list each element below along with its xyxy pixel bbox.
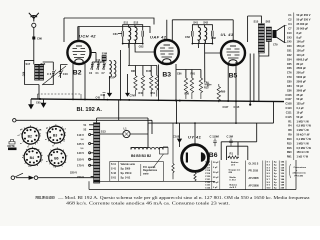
svg-text:B2: B2	[28, 135, 32, 139]
svg-text:125 V: 125 V	[77, 142, 84, 146]
svg-text:144: 144	[281, 178, 285, 181]
svg-text:C107: C107	[223, 106, 229, 109]
wires IF1	[123, 25, 143, 48]
svg-text:R9: R9	[288, 133, 292, 137]
loudspeaker	[273, 26, 287, 47]
svg-text:C1: C1	[288, 13, 292, 17]
svg-text:2500 pF: 2500 pF	[297, 80, 307, 84]
svg-text:128: 128	[281, 167, 285, 169]
svg-text:C118: C118	[205, 170, 211, 172]
svg-text:C 6: C 6	[47, 72, 52, 76]
svg-text:f f: f f	[52, 146, 54, 148]
svg-text:f f: f f	[53, 167, 55, 169]
svg-text:a7: a7	[18, 135, 21, 137]
svg-text:Sp: Sp	[274, 162, 277, 164]
svg-text:C65: C65	[287, 62, 292, 66]
svg-text:de B Z: de B Z	[230, 187, 237, 189]
svg-text:C7: C7	[102, 72, 106, 75]
socket B4	[22, 148, 44, 168]
svg-text:C60: C60	[287, 44, 292, 48]
padder C43 arrow	[101, 76, 112, 97]
svg-text:PHILIPS RADIO: PHILIPS RADIO	[36, 196, 56, 201]
svg-text:Valvole serie: Valvole serie	[121, 163, 136, 166]
rectifier tube B6 (UY41)	[182, 123, 218, 172]
svg-text:468 kc/s. Corrente totale anod: 468 kc/s. Corrente totale anodica 46 mA …	[66, 201, 230, 206]
svg-text:g1: g1	[40, 153, 43, 155]
svg-text:UAF 42: UAF 42	[150, 34, 167, 39]
svg-text:S 61: S 61	[111, 177, 117, 180]
bottom-centre table designators	[205, 162, 211, 190]
svg-text:50 kΩ ¼ W: 50 kΩ ¼ W	[297, 133, 311, 137]
svg-text:0,1 MΩ ¼ W: 0,1 MΩ ¼ W	[297, 137, 312, 141]
svg-text:R 88: R 88	[146, 70, 152, 73]
svg-text:C115: C115	[205, 162, 211, 164]
svg-text:Sp. 2000: Sp. 2000	[121, 168, 131, 171]
svg-text:C4: C4	[288, 22, 292, 26]
svg-text:m: m	[46, 161, 48, 163]
svg-text:C117: C117	[205, 167, 211, 169]
svg-text:C106: C106	[285, 93, 292, 97]
svg-text:C61: C61	[113, 32, 118, 36]
svg-text:C43: C43	[287, 35, 292, 39]
svg-text:Sp: Sp	[274, 164, 277, 166]
svg-text:B3: B3	[53, 134, 57, 138]
junction dots on bus	[72, 98, 255, 102]
svg-text:50 µF 350 V: 50 µF 350 V	[297, 18, 311, 22]
svg-text:C61: C61	[287, 49, 292, 53]
wire B2 cathode down	[73, 63, 85, 99]
svg-text:C66: C66	[37, 37, 42, 41]
output transformer secondary S16	[266, 20, 272, 42]
variable capacitor C10	[59, 65, 69, 79]
trimmer C2	[89, 62, 94, 75]
svg-text:2 µF: 2 µF	[213, 167, 218, 169]
svg-text:150 Ω 1 W: 150 Ω 1 W	[297, 150, 310, 154]
vertical feeds to 123 line	[177, 101, 274, 124]
svg-text:C63: C63	[185, 35, 190, 39]
wire transformer top	[97, 118, 148, 131]
svg-text:S 6: S 6	[267, 176, 271, 178]
svg-text:C62: C62	[139, 45, 144, 49]
ground bus	[31, 99, 284, 102]
ground arrow below bus	[41, 99, 45, 107]
svg-text:S 9: S 9	[267, 185, 271, 187]
capacitor C66 (antenna series)	[32, 37, 42, 41]
svg-text:C86: C86	[287, 88, 292, 92]
svg-text:144: 144	[281, 163, 285, 166]
svg-text:125 pF: 125 pF	[297, 102, 306, 106]
svg-text:C79: C79	[287, 75, 292, 79]
svg-text:Sp: Sp	[274, 179, 277, 181]
svg-text:C7M: C7M	[130, 95, 135, 98]
svg-text:R38: R38	[131, 70, 136, 73]
svg-text:5,6: 5,6	[81, 148, 85, 150]
wire B5 cathode legs	[228, 62, 236, 101]
svg-text:148: 148	[281, 184, 285, 187]
svg-text:B4: B4	[30, 156, 34, 160]
svg-text:150 pF: 150 pF	[297, 44, 306, 48]
junction dot below bus	[249, 104, 251, 106]
tap 140V	[77, 151, 94, 155]
svg-text:C76: C76	[287, 71, 292, 75]
right note block	[293, 166, 307, 177]
svg-text:1 MΩ ¼ W: 1 MΩ ¼ W	[297, 128, 310, 132]
svg-text:AP 23005: AP 23005	[249, 177, 260, 180]
svg-text:150 pF: 150 pF	[297, 49, 306, 53]
variable capacitor C6	[47, 70, 56, 77]
svg-text:C111: C111	[286, 110, 292, 114]
mains switch and plug	[11, 170, 93, 179]
svg-text:C1: C1	[96, 72, 100, 75]
trimmer C63	[185, 31, 193, 39]
trimmer C7	[102, 61, 107, 75]
svg-text:C107: C107	[285, 97, 292, 101]
resistor R91	[190, 73, 195, 99]
transformer tap S1	[84, 124, 94, 127]
tap 150V	[77, 158, 94, 162]
tube B5 (UL41)	[221, 32, 246, 80]
svg-text:g2: g2	[64, 135, 67, 137]
svg-text:Costruzione: Costruzione	[294, 166, 307, 169]
svg-text:C66: C66	[23, 71, 26, 76]
svg-text:a 2: a 2	[63, 129, 67, 131]
bottom-centre table parts	[229, 162, 241, 189]
svg-text:150 V: 150 V	[77, 158, 84, 162]
resistor S3M	[96, 52, 108, 62]
wire grid B2 left	[61, 18, 80, 65]
resistor R38	[131, 70, 137, 96]
svg-text:di S: di S	[231, 165, 236, 167]
svg-text:B6 B5 B3 B2: B6 B5 B3 B2	[131, 154, 151, 158]
svg-text:1 MΩ ¼ W: 1 MΩ ¼ W	[297, 119, 310, 123]
svg-text:C121: C121	[205, 179, 211, 181]
svg-text:C79: C79	[273, 44, 278, 47]
bottom rail	[89, 160, 296, 190]
wire B3 cathode down	[176, 64, 201, 101]
svg-text:C82: C82	[211, 36, 216, 40]
svg-text:S 8: S 8	[267, 182, 271, 184]
svg-text:S42: S42	[203, 21, 208, 25]
svg-text:S 4: S 4	[267, 169, 271, 172]
svg-text:110 pF: 110 pF	[297, 53, 305, 57]
resistor R1	[228, 152, 239, 159]
svg-text:C84: C84	[287, 84, 292, 88]
svg-text:OL 201 S: OL 201 S	[249, 164, 259, 166]
tube B3 (UAF42)	[150, 34, 179, 78]
wire below bus to transformer	[118, 100, 120, 121]
hum pot box	[153, 148, 168, 169]
svg-text:50 µF: 50 µF	[213, 172, 219, 174]
component value list	[285, 13, 311, 158]
pilot lamp L1	[100, 127, 148, 148]
padder C76 arrow	[126, 74, 135, 98]
svg-text:3,4: 3,4	[81, 138, 85, 141]
gang arrow (tuning)	[42, 66, 66, 85]
socket B3	[45, 126, 67, 147]
svg-text:R90: R90	[287, 150, 292, 154]
svg-text:184: 184	[281, 175, 285, 178]
svg-text:Sp: Sp	[274, 182, 277, 184]
svg-text:9000,5 µF: 9000,5 µF	[297, 57, 309, 61]
svg-text:g4: g4	[20, 128, 23, 131]
oscillator coil S5	[109, 61, 116, 80]
svg-text:R1: R1	[288, 119, 292, 123]
svg-text:1 kΩ ¼ W: 1 kΩ ¼ W	[297, 155, 309, 159]
resistor R88	[146, 70, 153, 97]
svg-text:0,5 MΩ ¼ W: 0,5 MΩ ¼ W	[297, 146, 312, 150]
socket B2	[18, 127, 42, 148]
svg-text:0,1 µF: 0,1 µF	[297, 106, 305, 110]
svg-text:B2: B2	[73, 70, 82, 77]
svg-text:R15: R15	[287, 141, 292, 145]
svg-text:Sp. 14 Ω: Sp. 14 Ω	[121, 177, 131, 180]
svg-text:25 µF: 25 µF	[213, 177, 219, 179]
svg-text:R91: R91	[191, 73, 196, 76]
top outer box	[64, 18, 154, 25]
svg-text:S12: S12	[134, 21, 139, 25]
caption line 1	[36, 196, 311, 207]
antenna	[29, 13, 39, 28]
svg-text:R40: R40	[139, 92, 144, 95]
svg-text:C43: C43	[101, 94, 106, 97]
svg-text:C 2M: C 2M	[227, 135, 234, 139]
svg-text:S17: S17	[26, 62, 31, 66]
svg-text:C45: C45	[287, 40, 292, 44]
wire antenna ground leg	[25, 60, 39, 99]
terminal circle left	[13, 119, 16, 122]
socket pin ticks	[21, 125, 41, 145]
tap 110V	[77, 133, 94, 137]
capacitor C108	[173, 123, 181, 147]
bottom-left table	[111, 163, 158, 180]
svg-text:C 110M: C 110M	[210, 135, 220, 139]
svg-text:fr. B Z: fr. B Z	[230, 180, 237, 182]
capacitor C21	[227, 135, 234, 147]
svg-text:e: e	[296, 170, 298, 172]
svg-text:250 pF: 250 pF	[297, 71, 306, 75]
svg-text:140 V: 140 V	[77, 151, 84, 155]
svg-text:B3: B3	[162, 72, 171, 79]
svg-text:Sp. 150 Ω: Sp. 150 Ω	[121, 172, 132, 175]
svg-text:C115: C115	[234, 106, 240, 109]
svg-text:1 MΩ ¼ W: 1 MΩ ¼ W	[297, 141, 310, 145]
svg-text:50 µF: 50 µF	[213, 162, 219, 164]
svg-text:50 µF 350 V: 50 µF 350 V	[297, 13, 311, 17]
svg-text:129: 129	[281, 173, 285, 175]
svg-text:S 11: S 11	[111, 163, 116, 166]
svg-text:8 µF: 8 µF	[297, 35, 303, 39]
wire rail under IF1	[128, 44, 157, 76]
box B5/output	[248, 16, 262, 42]
svg-text:R1: R1	[230, 152, 234, 156]
wire B2 anode to IF1	[91, 52, 96, 54]
svg-text:S11: S11	[124, 21, 129, 25]
transformer tap S2	[84, 129, 94, 132]
svg-text:50 µF: 50 µF	[213, 182, 219, 184]
svg-text:148: 148	[281, 181, 285, 184]
resistor C86 leg	[177, 73, 188, 99]
svg-text:R51: R51	[151, 92, 156, 95]
antenna coil S16	[39, 62, 45, 80]
wires around R1	[221, 123, 257, 160]
svg-text:C115: C115	[286, 115, 293, 119]
long vertical wires to bus	[250, 53, 259, 101]
svg-text:S 1: S 1	[267, 162, 271, 164]
power transformer S13	[94, 123, 107, 184]
svg-text:C62: C62	[287, 53, 292, 57]
svg-text:C123: C123	[205, 185, 211, 187]
svg-text:2 µF: 2 µF	[213, 187, 218, 189]
tap 220V	[77, 175, 94, 179]
wire secondary legs	[43, 62, 54, 85]
IF transformer 1 S11/S12	[124, 21, 139, 44]
svg-text:C108: C108	[285, 102, 292, 106]
svg-text:C10: C10	[287, 31, 292, 35]
svg-text:varie: varie	[143, 172, 149, 175]
svg-text:f f: f f	[27, 147, 29, 149]
box B3/IF2	[167, 20, 233, 41]
pickup NOTE icon	[8, 140, 17, 151]
svg-text:C122: C122	[205, 182, 211, 184]
svg-text:GM: GM	[229, 172, 233, 174]
svg-text:R15: R15	[204, 87, 209, 90]
capacitor C84 (horizontal)	[204, 81, 212, 89]
svg-text:C2: C2	[89, 72, 93, 75]
svg-text:UCH 42: UCH 42	[79, 33, 96, 38]
wire mid horizontal	[148, 123, 274, 130]
svg-text:L1: L1	[124, 127, 128, 131]
tap 125V	[77, 142, 94, 146]
svg-text:53M: 53M	[102, 52, 108, 56]
resistor R36	[185, 78, 203, 99]
svg-text:S15: S15	[254, 20, 259, 24]
oscillator coil S4	[109, 61, 111, 78]
svg-text:51: 51	[84, 124, 87, 127]
heater chain B6 B5 B3 B2	[131, 147, 168, 158]
svg-text:5000 pF: 5000 pF	[297, 75, 307, 79]
svg-text:S41: S41	[193, 21, 198, 25]
trimmer C61	[113, 31, 124, 37]
svg-text:m: m	[20, 143, 22, 145]
svg-text:R90: R90	[221, 91, 226, 94]
svg-text:Sp: Sp	[274, 170, 277, 172]
svg-text:80 pF: 80 pF	[297, 62, 304, 66]
resistor R40	[139, 76, 145, 97]
svg-text:C65: C65	[36, 101, 41, 104]
svg-text:184: 184	[281, 161, 285, 164]
svg-text:0,5 MΩ ¼ W: 0,5 MΩ ¼ W	[297, 124, 312, 128]
output transformer primary S15	[254, 20, 265, 54]
svg-text:25 000 pF: 25 000 pF	[297, 22, 309, 26]
svg-text:R10: R10	[287, 137, 292, 141]
svg-text:S 41: S 41	[111, 168, 117, 171]
svg-text:UL 41: UL 41	[221, 32, 234, 37]
wires IF2	[192, 25, 212, 82]
svg-text:3000 pF: 3000 pF	[297, 88, 307, 92]
svg-text:BI. 192 A.: BI. 192 A.	[77, 107, 103, 113]
svg-text:100 pF: 100 pF	[297, 40, 306, 44]
bus cap C45	[96, 93, 106, 100]
svg-text:R4: R4	[288, 124, 292, 128]
svg-text:R91: R91	[287, 155, 292, 159]
svg-text:S62: S62	[266, 20, 271, 24]
svg-text:10 µF: 10 µF	[297, 110, 304, 114]
svg-text:S13: S13	[101, 129, 106, 133]
svg-text:NOTE: NOTE	[8, 144, 15, 148]
svg-text:C10: C10	[63, 72, 68, 76]
svg-text:f: f	[37, 143, 38, 145]
svg-text:Sp: Sp	[274, 176, 277, 178]
svg-text:110 V: 110 V	[77, 133, 84, 137]
resistor R3 under B6	[194, 173, 196, 182]
svg-text:C86: C86	[177, 73, 182, 76]
svg-text:25 000 pF: 25 000 pF	[297, 27, 309, 31]
svg-text:C7: C7	[288, 27, 292, 31]
svg-text:52: 52	[84, 129, 87, 132]
svg-text:PR. 2010: PR. 2010	[249, 171, 259, 173]
svg-text:25 µF: 25 µF	[297, 93, 304, 97]
wire antenna down	[33, 27, 35, 64]
svg-text:B6: B6	[209, 152, 218, 159]
svg-text:Vs: Vs	[63, 141, 66, 143]
wire B3 cathode left	[158, 65, 160, 100]
wire B5 anode top	[205, 52, 221, 54]
svg-text:R36: R36	[185, 93, 190, 96]
long wire at y=120	[16, 120, 152, 134]
svg-text:C84: C84	[204, 81, 209, 84]
svg-text:C119: C119	[205, 173, 211, 175]
tube B2 (UCH42)	[67, 33, 96, 76]
svg-text:C2: C2	[288, 18, 292, 22]
svg-text:C80: C80	[287, 80, 292, 84]
trimmer C62	[139, 31, 144, 49]
svg-text:50 pF: 50 pF	[297, 84, 304, 88]
svg-text:R8: R8	[288, 128, 292, 132]
svg-text:Sp: Sp	[274, 167, 277, 169]
svg-text:C124: C124	[205, 187, 211, 190]
svg-text:170 V: 170 V	[77, 164, 84, 168]
svg-text:Sp: Sp	[274, 185, 277, 187]
junction C65 on bus	[36, 98, 41, 104]
svg-text:2500 pF: 2500 pF	[297, 66, 307, 70]
svg-text:4: 4	[65, 153, 67, 156]
svg-text:PR 1380: PR 1380	[295, 175, 304, 177]
svg-text:allineamento: allineamento	[293, 172, 307, 175]
svg-text:220 V: 220 V	[77, 175, 84, 179]
svg-text:C116: C116	[205, 164, 211, 166]
svg-text:S 2: S 2	[267, 164, 271, 166]
socket B5	[46, 149, 67, 169]
svg-text:220 V: 220 V	[70, 170, 77, 174]
resistor R90	[217, 84, 226, 102]
svg-text:R16: R16	[287, 146, 292, 150]
svg-text:S 7: S 7	[267, 179, 271, 181]
svg-text:C110: C110	[286, 106, 293, 110]
svg-text:S 3: S 3	[267, 167, 271, 169]
svg-text:S 42: S 42	[111, 172, 117, 175]
capacitor C110	[210, 135, 220, 147]
top inner box	[78, 27, 150, 41]
svg-text:184: 184	[281, 169, 285, 172]
svg-text:C64: C64	[287, 57, 292, 61]
svg-text:C120: C120	[205, 176, 211, 178]
antenna coil S17	[23, 62, 39, 80]
svg-text:g2R: g2R	[38, 130, 42, 132]
svg-text:C45: C45	[96, 97, 101, 100]
trimmer C1	[96, 61, 101, 75]
svg-text:C66: C66	[287, 66, 292, 70]
bottom-centre winding table	[267, 161, 285, 190]
